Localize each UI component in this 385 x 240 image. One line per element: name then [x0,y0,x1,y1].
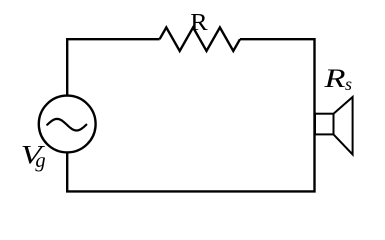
svg-text:R: R [323,63,345,93]
svg-text:g: g [35,150,45,172]
svg-text:R: R [190,9,208,36]
svg-text:s: s [345,74,352,94]
